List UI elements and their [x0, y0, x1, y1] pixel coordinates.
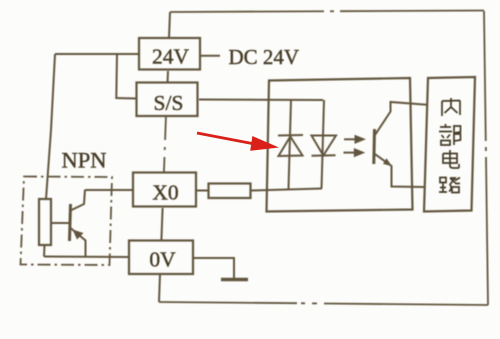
wire 0V to ground	[194, 258, 234, 279]
light arrow 1	[344, 138, 356, 140]
svg-text:NPN: NPN	[62, 148, 107, 173]
optocoupler block	[267, 78, 413, 212]
wire left vertical down to sensor resistor	[46, 54, 55, 199]
label 内部电路 (hand drawn strokes)	[439, 98, 461, 193]
transistor Q1 base bar	[70, 204, 71, 241]
ground	[221, 278, 248, 282]
resistor (input series)	[209, 184, 251, 199]
svg-text:0V: 0V	[149, 248, 176, 272]
internal circuit box	[424, 77, 475, 212]
char 部	[439, 124, 461, 145]
wire 24V to S/S	[167, 71, 170, 83]
LED branch right vertical	[322, 100, 325, 189]
phototransistor U1 collector	[375, 102, 427, 135]
terminal box 0V	[129, 241, 193, 275]
phototransistor U1 emitter	[374, 154, 424, 188]
wire 0V to bottom border	[159, 274, 160, 302]
wire X0 to 0V (boundary)	[161, 208, 162, 240]
LED branch left vertical	[289, 100, 292, 189]
char 路	[439, 178, 460, 193]
terminal box X0	[133, 173, 196, 207]
wire sensor emitter rail to 0V	[44, 256, 128, 259]
svg-text:24V: 24V	[152, 45, 190, 69]
diode D2 (down) cathode bar	[312, 154, 336, 157]
wire from 24V left edge going left	[55, 53, 139, 55]
phototransistor U1 emitter arrow	[383, 158, 392, 166]
wire branch down to S/S	[116, 54, 137, 99]
char 电	[443, 150, 459, 168]
outer PLC boundary right border	[484, 11, 488, 305]
transistor Q1 emitter arrow	[73, 230, 84, 240]
terminal box S/S	[137, 83, 198, 117]
outer boundary dash-dot between S/S and X0	[164, 115, 166, 173]
outer PLC boundary bottom border	[159, 302, 297, 303]
sensor dash-dot enclosure	[21, 177, 113, 266]
svg-text:DC 24V: DC 24V	[229, 45, 300, 69]
wire resistor bottom	[43, 245, 46, 257]
wire X0 to input resistor	[196, 190, 209, 192]
wire base lead	[51, 222, 70, 224]
svg-text:X0: X0	[152, 180, 178, 204]
diode D1 (up) triangle	[279, 137, 303, 157]
light arrow 2	[344, 152, 356, 154]
outer PLC boundary top border	[170, 11, 484, 13]
diode D1 (up) cathode bar	[278, 134, 303, 137]
transistor Q1 emitter	[71, 228, 86, 257]
outer PLC boundary left border segment above 24V	[169, 12, 170, 38]
terminal box 24V	[139, 38, 200, 70]
svg-text:S/S: S/S	[154, 91, 184, 115]
wire resistor to optocoupler cathode rail	[251, 189, 323, 191]
dash to DC 24V label	[201, 55, 221, 57]
transistor Q1 collector	[71, 190, 86, 211]
red annotation arrow	[197, 133, 279, 151]
wire X0 to sensor collector	[86, 189, 134, 191]
wire S/S to optocoupler anode rail	[199, 99, 323, 102]
phototransistor U1 base bar	[372, 129, 376, 164]
resistor (sensor pull-up)	[39, 199, 51, 245]
diode D2 (down) triangle	[312, 136, 337, 156]
char 内	[442, 98, 460, 116]
